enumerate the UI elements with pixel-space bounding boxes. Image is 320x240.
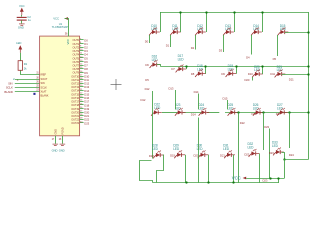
wire D23 cathode down to bottom bus: [259, 154, 261, 183]
svg-text:OUT4: OUT4: [73, 53, 80, 57]
junction row2 bus col5: [261, 65, 263, 67]
LED D13: [223, 28, 234, 36]
wire D19 cathode to row2 bus: [236, 66, 238, 73]
wire row2 bus: [161, 66, 309, 68]
pin stub OUT0: [80, 39, 84, 41]
svg-text:D22: D22: [240, 121, 245, 125]
wire right trunk: [308, 12, 310, 159]
svg-text:LED: LED: [152, 147, 159, 151]
LED D24: [199, 108, 210, 116]
wire D21 cathode down to bottom bus: [208, 155, 210, 183]
junction bottom bus: [232, 181, 234, 183]
LED D32: [249, 149, 260, 157]
wire D13 cathode to row1 bus: [234, 12, 236, 32]
wire column net col1 (left tall vertical): [152, 91, 154, 159]
svg-text:OUT2: OUT2: [73, 45, 80, 49]
wire D20 anode stub (row2 col5): [252, 77, 254, 81]
junction row3 bus / D27 cathode column: [288, 111, 290, 113]
svg-text:LED: LED: [197, 147, 204, 151]
svg-text:D20: D20: [245, 78, 250, 82]
pin stub OUT20: [80, 112, 84, 114]
svg-text:D23: D23: [264, 125, 269, 129]
pin stub OUT23: [80, 122, 84, 124]
svg-text:LED: LED: [228, 68, 235, 72]
pin stub OUT11: [80, 79, 84, 81]
wire D12 cathode to row1 bus: [206, 12, 208, 32]
svg-text:OUT6: OUT6: [73, 60, 80, 64]
pin stub OUT15: [80, 94, 84, 96]
wire D20 cathode to row2 bus: [262, 66, 264, 74]
svg-text:2: 2: [13, 77, 15, 81]
capacitor C2: [17, 17, 27, 20]
svg-text:SCLK: SCLK: [41, 85, 48, 89]
wire U1 GND pin: [55, 136, 57, 144]
LED D25: [228, 108, 239, 116]
wire D14 anode stub: [251, 35, 253, 55]
pin stub OUT3: [80, 50, 84, 52]
svg-text:GND: GND: [52, 148, 58, 152]
wire D26 cathode column down: [263, 112, 265, 150]
svg-text:XLAT: XLAT: [41, 89, 47, 93]
wire row1 bus: [160, 12, 309, 14]
svg-text:D21: D21: [289, 78, 294, 82]
LED D17: [176, 65, 187, 73]
svg-text:VCC: VCC: [232, 176, 241, 181]
wire VCC to U1 pin 36: [65, 19, 69, 37]
svg-text:36: 36: [65, 31, 68, 35]
svg-text:D9: D9: [221, 72, 225, 76]
LED D12: [195, 28, 206, 36]
wire column net (label D14) down to bottom bus: [198, 118, 200, 183]
wire D10 anode stub: [149, 35, 151, 43]
svg-text:OUT7: OUT7: [73, 63, 80, 67]
svg-text:OUT9: OUT9: [73, 71, 80, 75]
svg-text:OUT14: OUT14: [71, 89, 79, 93]
wire LED supply to R1: [20, 53, 22, 61]
LED D29: [174, 150, 185, 158]
wire R1 to U1 IREF pin: [21, 71, 40, 75]
wire D12 cathode to trunk: [282, 74, 309, 76]
junction trunk / D12: [307, 73, 309, 75]
svg-text:OUT18: OUT18: [71, 103, 79, 107]
junction row3 bus / D25 cathode column: [237, 111, 239, 113]
wire BLANK net: [15, 91, 40, 93]
svg-text:D3: D3: [219, 48, 223, 52]
pin stub OUT10: [80, 76, 84, 78]
svg-text:D2: D2: [191, 46, 195, 50]
svg-text:D20: D20: [194, 154, 199, 158]
pin stub OUT12: [80, 83, 84, 85]
svg-text:D7: D7: [171, 67, 175, 71]
pin stub OUT6: [80, 61, 84, 63]
svg-text:D5: D5: [273, 57, 277, 61]
wire D20 cathode down to bottom bus: [185, 155, 187, 183]
wire VCC net (bottom): [246, 178, 284, 180]
svg-text:D23: D23: [84, 121, 89, 125]
wire D28 cathode zigzag to bottom bus: [157, 155, 164, 183]
svg-text:OUT21: OUT21: [71, 114, 79, 118]
pin stub OUT1: [80, 43, 84, 45]
junction row1 bus col5: [261, 11, 263, 13]
svg-text:D19: D19: [170, 154, 175, 158]
svg-text:D23: D23: [263, 179, 268, 183]
pin stub OUT14: [80, 90, 84, 92]
wire D11 cathode to row1 bus: [180, 12, 182, 32]
LED D21: [275, 70, 286, 78]
wire D10 cathode to row1 bus: [160, 12, 162, 32]
svg-text:LED: LED: [173, 147, 180, 151]
svg-text:D12: D12: [141, 98, 146, 102]
wire D28 anode loop to bottom bus corner: [140, 161, 153, 183]
svg-text:D17: D17: [276, 112, 281, 116]
svg-text:2k: 2k: [24, 67, 27, 71]
LED D11: [170, 28, 181, 36]
svg-text:R1: R1: [24, 62, 28, 66]
svg-text:D12: D12: [145, 87, 150, 91]
supply symbol VCC (top-left): [20, 8, 23, 15]
wire column net col6: [269, 129, 271, 179]
wire D6 cathode to trunk: [285, 32, 309, 34]
resistor R1: [18, 61, 22, 71]
supply symbol VCC arrow at U1 top: [64, 17, 68, 20]
svg-text:OUT5: OUT5: [73, 56, 80, 60]
pin stub OUT7: [80, 65, 84, 67]
wire D17 cathode to row2 bus: [186, 66, 188, 69]
LED D19: [226, 69, 237, 77]
svg-text:D23: D23: [269, 151, 274, 155]
pin stub OUT22: [80, 119, 84, 121]
junction row2 bus col2: [185, 65, 187, 67]
pin stub OUT13: [80, 86, 84, 88]
junction VCC / bottom bus: [277, 177, 279, 179]
wire D14 cathode to row1 bus: [262, 12, 264, 32]
wire D18 cathode to row2 bus: [205, 66, 207, 73]
svg-text:D13: D13: [169, 86, 174, 90]
LED D27: [277, 108, 288, 116]
svg-text:LED: LED: [272, 144, 279, 148]
wire SOUT net: [15, 79, 40, 81]
svg-text:GND: GND: [59, 148, 65, 152]
pin stub OUT18: [80, 104, 84, 106]
svg-text:OUT15: OUT15: [71, 92, 79, 96]
LED D23: [175, 108, 186, 116]
pin stub OUT2: [80, 47, 84, 49]
junction row1 bus col3: [205, 11, 207, 13]
svg-text:OUT22: OUT22: [71, 118, 79, 122]
svg-text:IREF: IREF: [41, 72, 47, 76]
LED D26: [253, 108, 264, 116]
pin stub OUT5: [80, 57, 84, 59]
svg-text:D24: D24: [289, 153, 294, 157]
svg-text:D1: D1: [166, 43, 170, 47]
node marker (navy) near XLAT pin: [33, 93, 35, 95]
wire row3 bus segment: [225, 112, 309, 114]
junction VCC / col6: [269, 177, 271, 179]
svg-text:LED: LED: [178, 58, 185, 62]
pin stub OUT4: [80, 54, 84, 56]
ground (U1 GND): [53, 144, 59, 145]
svg-text:GND: GND: [53, 129, 57, 135]
sheet origin crosshair: [111, 79, 122, 90]
junction row3 bus / D26 cathode column: [262, 111, 264, 113]
pin stub OUT8: [80, 68, 84, 70]
junction bottom bus: [185, 181, 187, 183]
pin stub OUT19: [80, 108, 84, 110]
svg-text:PGND: PGND: [60, 127, 64, 134]
wire row3 bus segment: [207, 112, 219, 114]
svg-text:D22: D22: [244, 152, 249, 156]
wire D13 anode stub up (row3): [175, 90, 177, 109]
wire D13 anode stub: [223, 35, 225, 52]
svg-text:OUT23: OUT23: [71, 121, 79, 125]
supply symbol LED net: [19, 46, 22, 53]
svg-text:D15: D15: [223, 97, 228, 101]
svg-text:D8: D8: [191, 72, 195, 76]
svg-text:D5: D5: [145, 78, 149, 82]
wire VCC to C2: [21, 15, 23, 17]
wire bottom bus up to VCC line: [278, 178, 280, 183]
wire corner down to VCC net: [284, 159, 286, 178]
wire SIN net: [15, 83, 40, 85]
pin stub OUT17: [80, 101, 84, 103]
svg-text:OUT1: OUT1: [73, 42, 80, 46]
pin stub OUT16: [80, 97, 84, 99]
svg-text:D16: D16: [252, 112, 257, 116]
wire SCLK net: [15, 87, 40, 89]
svg-text:D0: D0: [145, 39, 149, 43]
wire D15 anode stub: [277, 35, 279, 56]
svg-text:OUT11: OUT11: [71, 78, 79, 82]
svg-text:D11: D11: [270, 72, 275, 76]
svg-text:SIN: SIN: [8, 82, 12, 86]
svg-text:VCC: VCC: [19, 4, 25, 8]
svg-text:TLC5947DAP: TLC5947DAP: [52, 25, 68, 29]
junction trunk / D6: [307, 31, 309, 33]
svg-text:D18: D18: [149, 154, 154, 158]
svg-text:OUT19: OUT19: [71, 107, 79, 111]
LED D18: [195, 69, 206, 77]
svg-text:BLANK: BLANK: [41, 93, 49, 97]
wire corner to trunk: [285, 159, 309, 161]
svg-text:D14: D14: [191, 113, 196, 117]
svg-text:LED: LED: [223, 147, 230, 151]
junction D24 corner: [283, 158, 285, 160]
wire U1 PGND pin: [62, 136, 64, 144]
LED D22: [151, 108, 162, 116]
LED D14: [251, 28, 262, 36]
svg-text:OUT12: OUT12: [71, 82, 79, 86]
junction row2 bus / trunk: [307, 65, 309, 67]
wire D25 cathode column down to bottom bus: [238, 112, 240, 182]
LED D31: [224, 150, 235, 158]
svg-text:OUT16: OUT16: [71, 96, 79, 100]
svg-text:OUT13: OUT13: [71, 85, 79, 89]
junction row3 bus / trunk: [307, 111, 309, 113]
svg-text:SIN: SIN: [41, 81, 45, 85]
svg-text:LED: LED: [248, 146, 255, 150]
svg-text:OUT10: OUT10: [71, 74, 79, 78]
pin stub OUT21: [80, 115, 84, 117]
LED D10: [149, 28, 160, 36]
junction row2 bus col4: [235, 65, 237, 67]
svg-text:VCC: VCC: [53, 17, 59, 21]
svg-text:OUT17: OUT17: [71, 100, 79, 104]
svg-text:OUT8: OUT8: [73, 67, 80, 71]
wire D14 anode stub up (row3): [198, 94, 200, 110]
LED D16: [150, 60, 161, 68]
wire D12 anode stub: [195, 35, 197, 50]
svg-text:OUT3: OUT3: [73, 49, 80, 53]
LED D20: [252, 70, 263, 78]
LED D30: [198, 150, 209, 158]
svg-text:SOUT: SOUT: [41, 77, 48, 81]
LED D28: [153, 151, 164, 159]
wire D7 cathode to row2 bus: [157, 65, 161, 67]
svg-text:D4: D4: [246, 56, 250, 60]
wire D11 anode stub: [170, 35, 172, 47]
svg-text:GND: GND: [18, 25, 24, 29]
svg-text:27: 27: [52, 139, 55, 141]
junction row1 bus col2: [179, 11, 181, 13]
wire row3 bus segment: [183, 112, 201, 114]
wire D31 cathode down to bottom bus: [233, 155, 235, 183]
svg-text:OUT0: OUT0: [73, 38, 80, 42]
pin stub OUT9: [80, 72, 84, 74]
junction bottom bus: [207, 181, 209, 183]
svg-text:D10: D10: [248, 72, 253, 76]
svg-text:1u: 1u: [28, 18, 31, 22]
wire C2 to GND: [21, 21, 23, 24]
svg-text:VCC: VCC: [66, 39, 70, 45]
LED D15: [278, 28, 289, 36]
wire D27 cathode column down: [289, 112, 291, 148]
IC U1 body: [40, 36, 80, 136]
wire D15 anode stub up (row3): [227, 100, 229, 109]
junction row1 bus col4: [233, 11, 235, 13]
ground (under C2): [19, 24, 25, 25]
wire bottom bus: [153, 182, 280, 184]
LED D33: [273, 148, 284, 156]
junction row2 bus col3: [204, 65, 206, 67]
svg-text:D21: D21: [220, 154, 225, 158]
svg-text:28: 28: [59, 139, 62, 141]
svg-text:D6: D6: [145, 63, 149, 67]
svg-text:D14: D14: [194, 90, 199, 94]
ground (U1 PGND): [60, 144, 66, 145]
svg-text:LED: LED: [197, 68, 204, 72]
svg-text:OUT20: OUT20: [71, 110, 79, 114]
svg-text:BLANK: BLANK: [4, 90, 13, 94]
svg-text:LED: LED: [16, 41, 21, 45]
svg-text:SCLK: SCLK: [6, 86, 13, 90]
wire D24 cathode to corner: [282, 153, 285, 160]
wire row3 bus segment: [162, 112, 178, 114]
supply symbol VCC arrow (bottom): [243, 177, 247, 180]
